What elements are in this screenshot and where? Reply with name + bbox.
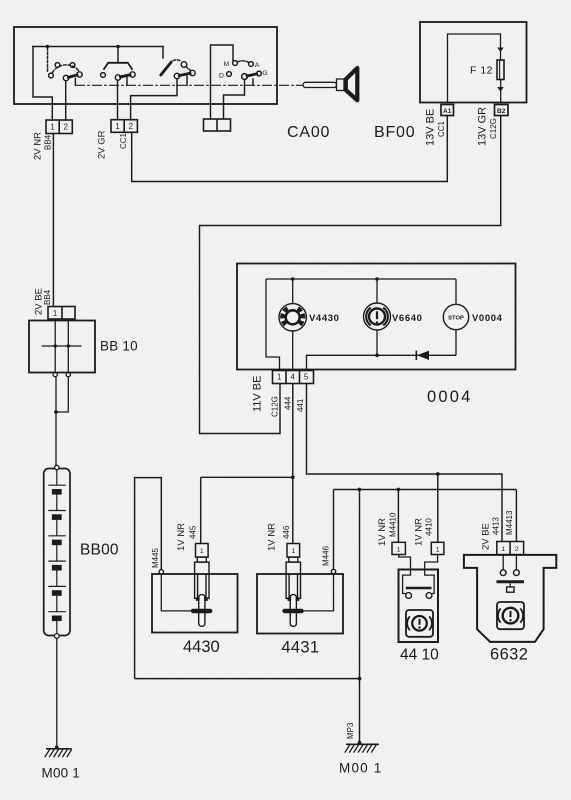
svg-text:V4430: V4430 (309, 313, 339, 324)
svg-text:F 12: F 12 (470, 65, 493, 77)
svg-text:4413: 4413 (491, 517, 500, 535)
svg-text:4410: 4410 (425, 518, 434, 536)
svg-text:V6640: V6640 (392, 313, 422, 324)
svg-text:1: 1 (277, 373, 281, 382)
svg-text:13V GR: 13V GR (477, 107, 489, 146)
svg-text:C12G: C12G (489, 118, 498, 139)
svg-text:11V BE: 11V BE (252, 376, 264, 413)
svg-text:1V NR: 1V NR (414, 518, 425, 546)
svg-text:A: A (255, 62, 260, 69)
svg-text:2: 2 (515, 546, 519, 553)
svg-text:BB4: BB4 (43, 289, 52, 305)
svg-text:STOP: STOP (448, 315, 464, 321)
svg-text:M: M (224, 61, 230, 68)
svg-text:2V BE: 2V BE (481, 523, 492, 550)
svg-text:44 10: 44 10 (400, 647, 439, 664)
svg-text:4431: 4431 (281, 639, 319, 657)
svg-text:D: D (219, 72, 224, 79)
svg-text:446: 446 (282, 525, 291, 539)
svg-text:M445: M445 (151, 547, 160, 568)
svg-text:M446: M446 (322, 545, 331, 566)
svg-text:CA00: CA00 (287, 124, 330, 141)
svg-text:CC1: CC1 (437, 120, 446, 137)
svg-text:1: 1 (115, 122, 119, 131)
svg-text:BB4: BB4 (43, 134, 52, 150)
svg-text:1V NR: 1V NR (176, 523, 187, 551)
svg-text:1V NR: 1V NR (377, 518, 388, 546)
svg-text:1: 1 (50, 123, 54, 132)
svg-text:6632: 6632 (490, 646, 528, 664)
svg-text:1: 1 (291, 548, 295, 555)
svg-text:441: 441 (296, 398, 305, 412)
svg-text:13V BE: 13V BE (425, 109, 437, 146)
svg-text:2: 2 (129, 122, 133, 131)
svg-text:G: G (262, 70, 267, 77)
svg-text:445: 445 (188, 525, 197, 539)
svg-text:B2: B2 (497, 108, 506, 115)
svg-text:V0004: V0004 (472, 313, 503, 324)
svg-text:444: 444 (284, 396, 293, 410)
svg-text:5: 5 (304, 373, 309, 382)
svg-text:2V GR: 2V GR (96, 130, 107, 159)
svg-text:A1: A1 (443, 108, 452, 115)
svg-text:BB00: BB00 (80, 542, 119, 559)
svg-text:M4410: M4410 (389, 512, 398, 537)
svg-text:MP3: MP3 (346, 722, 355, 739)
svg-text:BB 10: BB 10 (100, 339, 138, 354)
svg-text:1V NR: 1V NR (266, 523, 277, 551)
svg-text:4: 4 (291, 373, 296, 382)
svg-text:1: 1 (200, 548, 204, 555)
svg-text:M00 1: M00 1 (339, 761, 383, 776)
svg-text:BF00: BF00 (374, 124, 415, 141)
svg-text:M4413: M4413 (505, 510, 514, 535)
svg-text:1: 1 (53, 309, 57, 318)
svg-text:4430: 4430 (183, 638, 220, 656)
svg-text:1: 1 (397, 547, 401, 554)
svg-text:1: 1 (502, 546, 506, 553)
svg-text:2: 2 (64, 123, 68, 132)
svg-text:0004: 0004 (427, 388, 473, 406)
svg-text:1: 1 (436, 547, 440, 554)
svg-text:2V NR: 2V NR (33, 132, 44, 160)
svg-text:CC1: CC1 (119, 132, 128, 149)
svg-text:M00 1: M00 1 (42, 766, 81, 781)
svg-text:C12G: C12G (271, 396, 280, 417)
